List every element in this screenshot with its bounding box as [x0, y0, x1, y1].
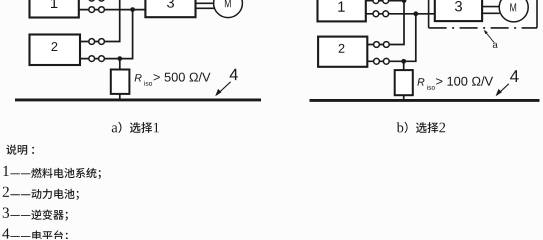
junction dot negative bus top (figure b)	[413, 11, 418, 16]
box 2 power battery (figure a)	[30, 35, 81, 66]
connector circles on box2 upper wire (figure a)	[89, 39, 105, 45]
legend item 3 inverter	[3, 208, 68, 221]
value label Riso > 100 ohm/V (figure b)	[417, 76, 493, 90]
box 2 power battery (figure b)	[318, 37, 367, 67]
wire resistor top lead (figure a)	[119, 59, 121, 70]
label 4 platform (figure a)	[230, 69, 238, 80]
caption a) option 1	[112, 122, 159, 133]
motor M (figure b)	[499, 0, 528, 22]
leader arrow for label a (figure b)	[484, 30, 495, 43]
leader arrow for label 4 (figure a)	[215, 82, 230, 96]
label a boundary (figure b)	[493, 43, 498, 48]
box 1 fuel cell system (figure a)	[30, 0, 79, 17]
wire pair inverter to motor (figure a)	[196, 3, 215, 8]
legend item 1 fuel cell system	[3, 166, 100, 179]
wire box1 lower terminal to box3 (figure a)	[79, 9, 145, 11]
wire resistor bottom lead to platform (figure a)	[119, 94, 121, 100]
box 1 fuel cell system (figure b)	[318, 0, 366, 21]
connector circles on box2 lower wire (figure a)	[89, 56, 105, 62]
connector circles on box1 lower wire (figure b)	[373, 11, 389, 17]
resistor Riso (figure a)	[111, 70, 130, 94]
box 3 inverter (figure b)	[435, 0, 482, 21]
connector circles on box2 lower wire (figure b)	[374, 58, 390, 64]
electric platform line 4 (figure a)	[15, 98, 261, 101]
value label Riso > 500 ohm/V (figure a)	[135, 72, 211, 86]
label 4 platform (figure b)	[510, 70, 519, 82]
wire negative bus down and left to box2 lower terminal (figure a)	[80, 9, 133, 59]
caption b) option 2	[397, 122, 446, 133]
resistor Riso (figure b)	[395, 70, 413, 95]
motor M (figure a)	[214, 0, 243, 18]
wire positive bus down to box2 upper terminal (figure b)	[367, 0, 404, 45]
wire negative bus down and left to box2 lower terminal (figure b)	[367, 13, 416, 62]
wire box1 upper terminal to positive bus (figure b)	[366, 0, 404, 2]
legend item 4 electric platform	[2, 228, 68, 240]
leader arrow for label 4 (figure b)	[496, 84, 509, 96]
connector circles on box1 wire (figure a)	[89, 7, 105, 13]
legend item 2 power battery	[3, 187, 79, 200]
wire pair inverter to motor (figure b)	[482, 7, 500, 14]
connector circles on box1 upper wire cut at top edge (figure a)	[89, 0, 105, 1]
wire positive bus from box2 upper terminal to top (figure a)	[80, 0, 120, 42]
wire box1 lower terminal to box3 (figure b)	[366, 13, 435, 15]
wire resistor top lead (figure b)	[403, 61, 405, 70]
box 3 inverter (figure a)	[145, 0, 195, 17]
junction dot at resistor tap (figure a)	[117, 56, 122, 61]
electric platform line 4 (figure b)	[310, 99, 540, 102]
dash-dot boundary a around inverter and motor (figure b)	[429, 0, 537, 28]
junction dot negative bus top (figure a)	[130, 7, 135, 12]
wire resistor bottom lead to platform (figure b)	[403, 95, 405, 101]
legend heading (explanation)	[6, 145, 34, 155]
junction dot at resistor tap (figure b)	[401, 59, 406, 64]
connector circles on box1 upper wire (figure b)	[373, 0, 389, 4]
connector circles on box2 upper wire (figure b)	[374, 42, 390, 48]
junction dot positive bus top (figure b)	[402, 0, 407, 3]
